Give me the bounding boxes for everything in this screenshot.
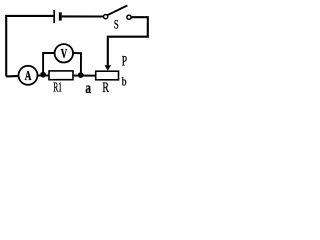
svg-text:P: P	[122, 54, 127, 70]
slider arrowhead	[105, 65, 112, 71]
battery long plate (positive)	[53, 10, 55, 23]
svg-text:R1: R1	[53, 80, 62, 95]
switch right terminal circle	[127, 15, 131, 19]
node dot left (junction of voltmeter lead and R1 left)	[40, 72, 46, 78]
node dot right (junction of voltmeter lead and R1 right)	[78, 72, 84, 78]
wire switch to right side down to slider arrow	[108, 17, 148, 66]
wire battery to switch	[62, 15, 104, 17]
voltmeter right lead	[73, 53, 81, 74]
wire bottom row: ammeter right to potentiometer left	[37, 75, 96, 77]
ammeter A	[19, 66, 38, 85]
voltmeter left lead	[43, 53, 55, 74]
switch lever	[107, 5, 127, 15]
svg-text:R: R	[102, 80, 109, 96]
wire top from left corner to battery	[6, 16, 54, 77]
svg-text:V: V	[61, 46, 68, 61]
battery short plate (negative)	[59, 12, 62, 20]
wire bottom left corner to ammeter	[6, 75, 19, 78]
svg-text:b: b	[122, 75, 127, 89]
resistor R1 body	[49, 71, 73, 80]
svg-text:A: A	[25, 68, 32, 83]
potentiometer R body	[96, 71, 119, 80]
svg-text:a: a	[85, 80, 91, 97]
svg-text:S: S	[114, 17, 119, 31]
voltmeter V	[55, 44, 73, 62]
switch left terminal circle	[104, 15, 108, 19]
